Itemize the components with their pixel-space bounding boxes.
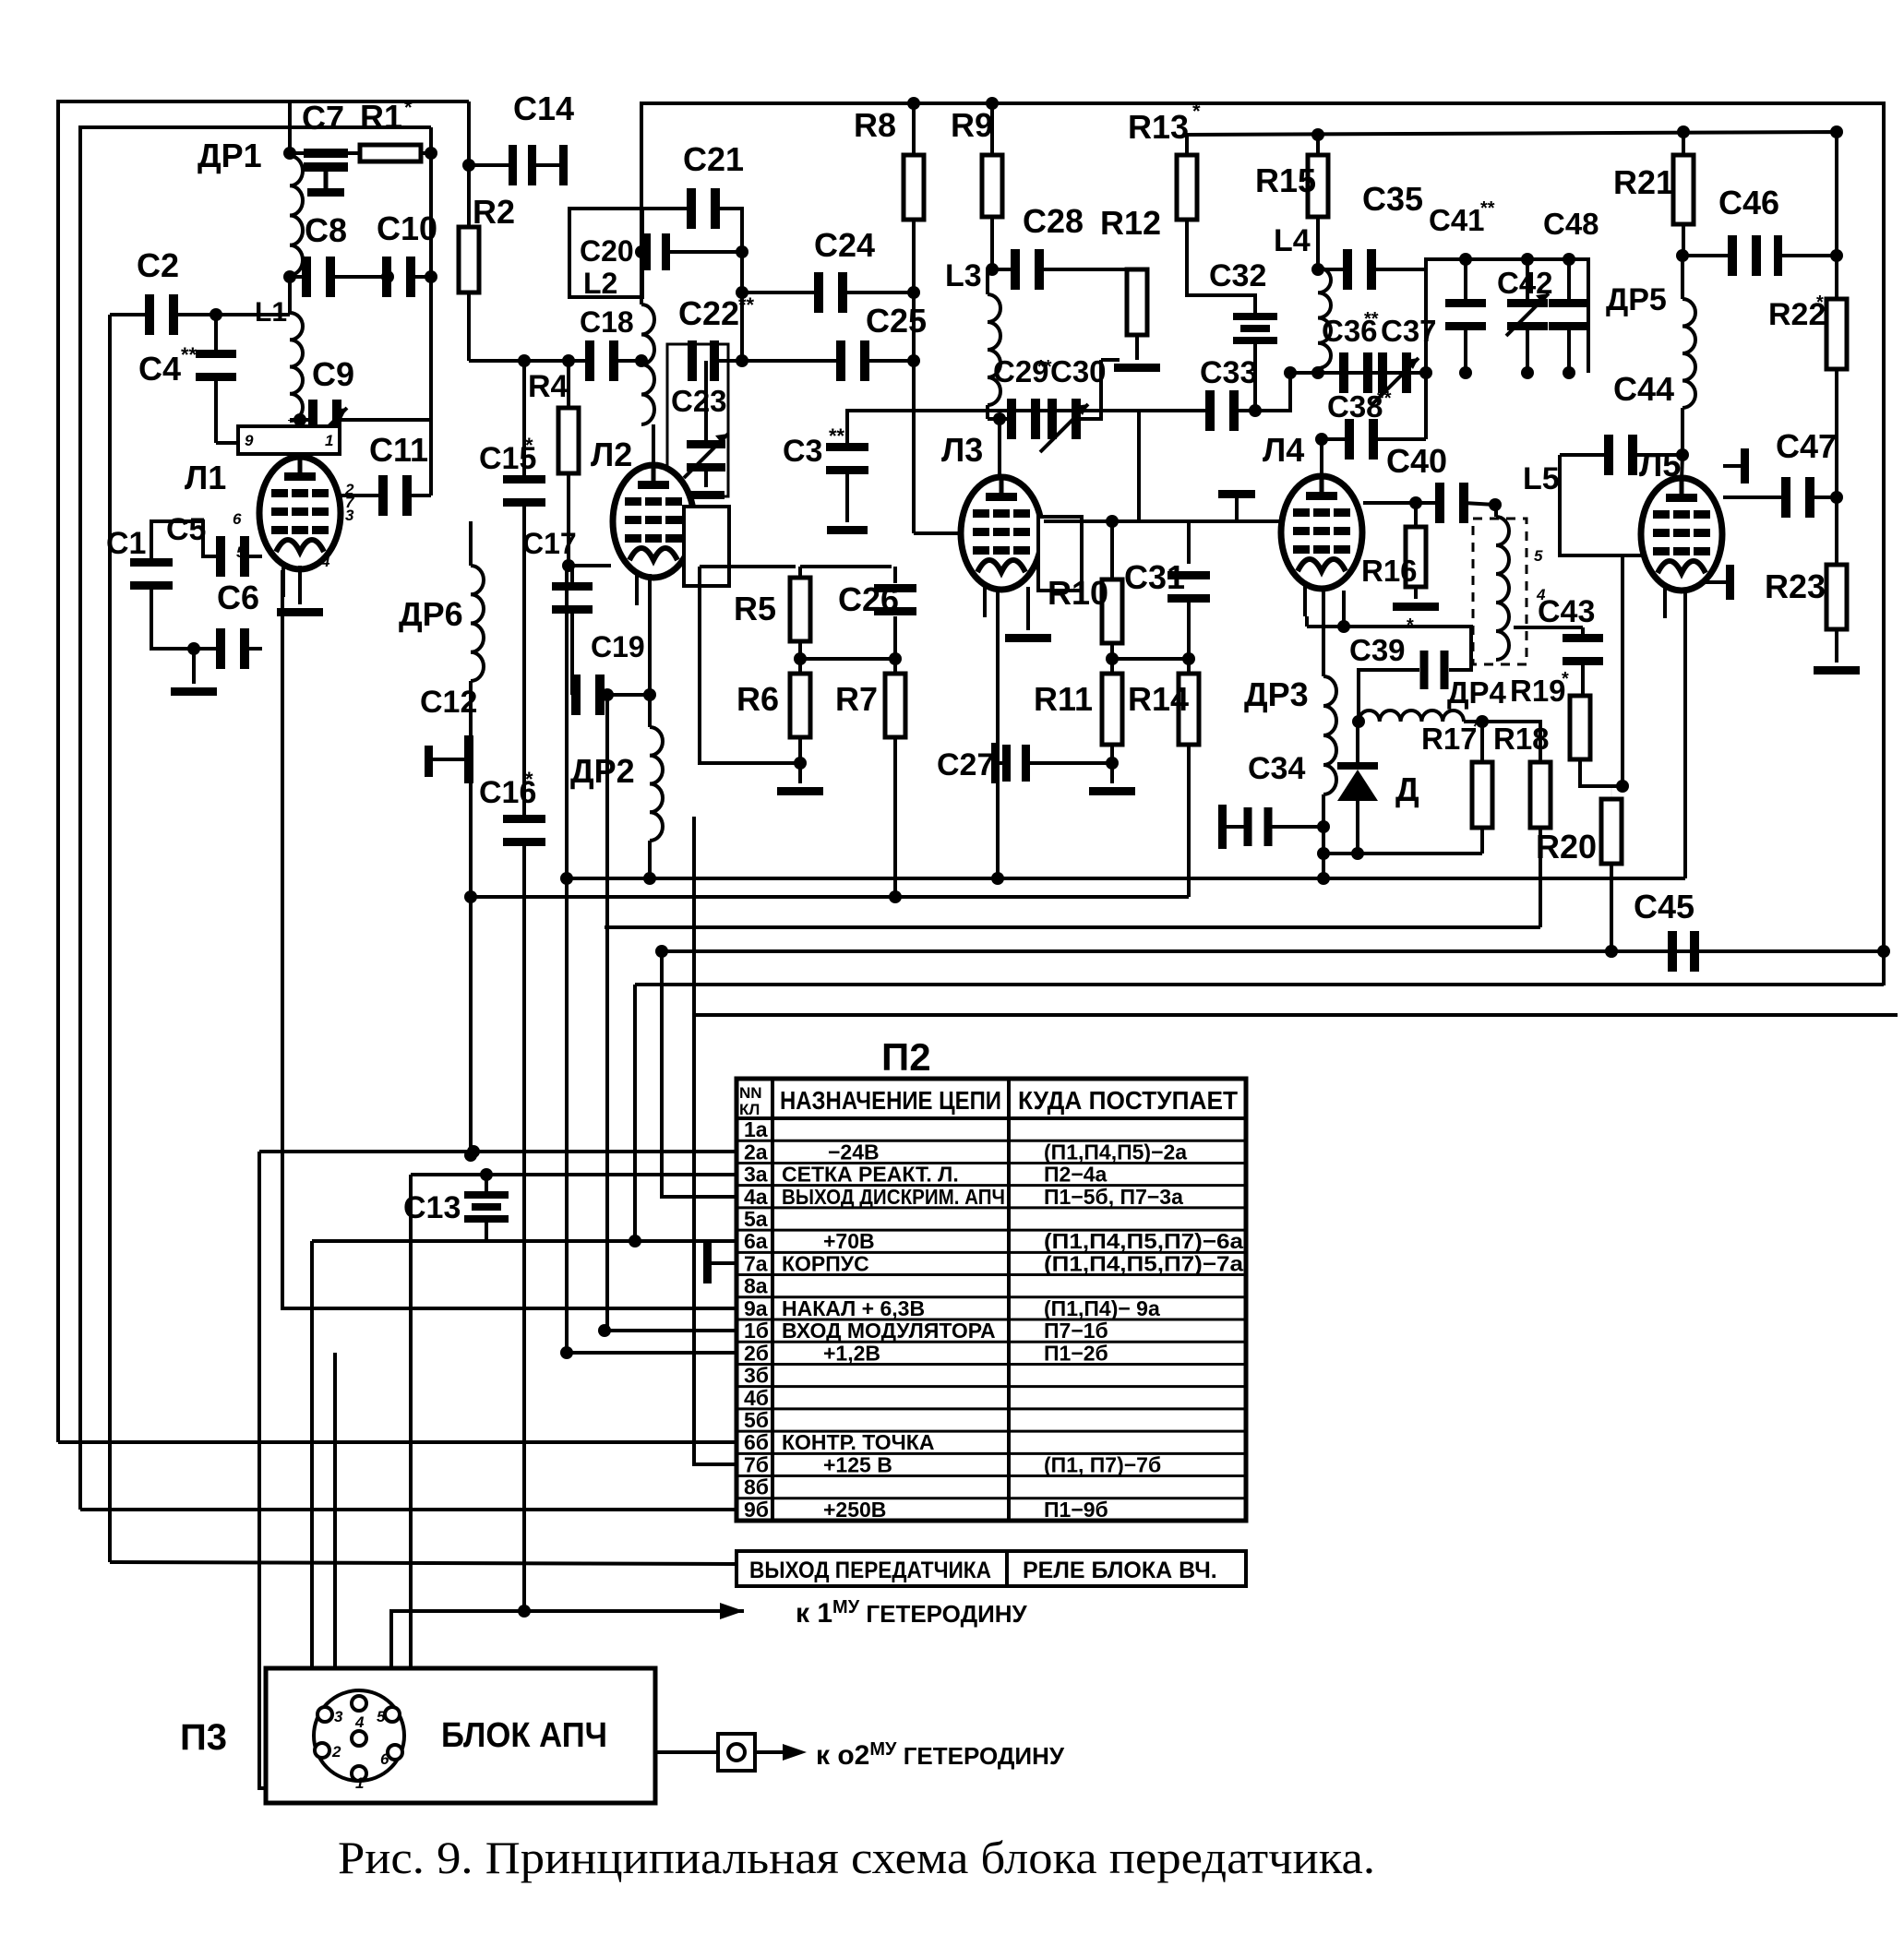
capacitor C35 [1311, 263, 1324, 276]
svg-text:C37: C37 [1381, 314, 1437, 348]
capacitor C23 variable [704, 361, 708, 448]
svg-text:9: 9 [245, 432, 254, 449]
wire v306 heater to row 9a [282, 570, 736, 1308]
cathode marker L5 [1706, 580, 1728, 584]
svg-text:C46: C46 [1718, 184, 1779, 221]
svg-text:СЕТКА РЕАКТ. Л.: СЕТКА РЕАКТ. Л. [782, 1163, 959, 1187]
tube L5 cathode down [1683, 588, 1687, 878]
capacitor C27 [991, 743, 1000, 783]
wire +B bus y146 [1187, 132, 1837, 299]
tube L3 [961, 477, 1042, 590]
tube L2 [613, 465, 694, 578]
svg-text:C35: C35 [1362, 180, 1423, 218]
svg-text:*: * [404, 96, 413, 119]
svg-text:C12: C12 [420, 685, 477, 720]
svg-text:+1,2В: +1,2В [823, 1341, 880, 1365]
resistor R1 [360, 145, 421, 161]
svg-text:R21: R21 [1613, 163, 1674, 201]
resistor R11 [1111, 673, 1113, 675]
svg-text:C30: C30 [1050, 354, 1107, 388]
svg-text:3а: 3а [744, 1163, 768, 1187]
svg-text:R13: R13 [1128, 108, 1189, 146]
capacitor C45 [1668, 931, 1677, 972]
svg-text:**: ** [181, 343, 198, 366]
wire row 6b feed from left frame [58, 1440, 736, 1444]
capacitor C20 [635, 245, 648, 258]
svg-text:**: ** [829, 424, 845, 448]
inductor L4 [1318, 268, 1331, 368]
resistor R21 [1677, 125, 1690, 138]
svg-text:R9: R9 [951, 106, 993, 144]
inductor L1 [290, 313, 303, 421]
capacitor C40 [1363, 501, 1440, 505]
svg-text:+125 В: +125 В [823, 1452, 892, 1476]
capacitor C46 [1676, 249, 1689, 262]
capacitor C22 [688, 340, 697, 381]
tube L1 cathode ground [298, 566, 302, 604]
resistor R8 [912, 103, 916, 155]
svg-text:C7: C7 [302, 99, 344, 137]
resistor R18 [1482, 722, 1540, 762]
tube L1 pins box [238, 426, 340, 454]
capacitor C39 [1305, 616, 1309, 627]
resistor R9 [990, 103, 994, 155]
svg-text:L2: L2 [583, 267, 617, 300]
svg-text:R6: R6 [736, 680, 779, 718]
svg-text:C38: C38 [1327, 389, 1383, 424]
resistor R13 [1185, 135, 1189, 155]
svg-text:C45: C45 [1634, 888, 1694, 925]
svg-text:R1: R1 [360, 98, 402, 136]
capacitor C10 [382, 257, 391, 297]
svg-text:*: * [1192, 100, 1201, 123]
wire v510 DR6-C12 line to row 2a [469, 521, 473, 566]
ground under R16 [1393, 603, 1439, 611]
wire row 9b feed [80, 1508, 736, 1511]
svg-text:(П1,П4,П5)−2а: (П1,П4,П5)−2а [1044, 1140, 1187, 1164]
wire row 3a feed [411, 1173, 736, 1176]
capacitor C5 [151, 521, 222, 564]
svg-text:R7: R7 [835, 680, 878, 718]
svg-text:4б: 4б [744, 1386, 769, 1410]
svg-text:L1: L1 [255, 297, 287, 328]
wire to 1st heterodyne [391, 1611, 744, 1718]
svg-text:П7−1б: П7−1б [1044, 1319, 1108, 1343]
wire C2 feed vertical [108, 315, 112, 1562]
svg-text:C8: C8 [305, 211, 347, 249]
capacitor C13 feedthrough [480, 1168, 493, 1181]
wire R5-R6 junction [798, 641, 802, 674]
svg-text:П1−2б: П1−2б [1044, 1341, 1108, 1365]
capacitor C24 [742, 291, 818, 294]
wire L4 tank bottom [1290, 371, 1426, 375]
svg-text:C17: C17 [522, 527, 577, 560]
svg-text:R2: R2 [473, 193, 515, 231]
svg-text:(П1,П4,П5,П7)−6а: (П1,П4,П5,П7)−6а [1044, 1229, 1243, 1253]
capacitor C9 variable [288, 420, 292, 421]
svg-text:R23: R23 [1765, 567, 1826, 605]
wire left frame outer [58, 101, 469, 1442]
svg-text:ДР3: ДР3 [1244, 675, 1309, 713]
svg-text:Л4: Л4 [1263, 431, 1304, 469]
svg-text:C1: C1 [106, 526, 146, 561]
svg-text:R18: R18 [1493, 722, 1550, 756]
svg-text:*: * [525, 768, 533, 791]
wire APCh output [655, 1750, 718, 1754]
svg-text:2: 2 [331, 1743, 341, 1761]
resistor R23 [1835, 497, 1838, 565]
svg-text:C40: C40 [1386, 442, 1447, 480]
capacitor C11 [339, 494, 382, 497]
capacitor C26 [800, 565, 892, 568]
capacitor C8 [288, 275, 292, 313]
svg-text:П2: П2 [881, 1035, 931, 1079]
svg-text:R15: R15 [1255, 161, 1316, 199]
capacitor C7 feedthrough [290, 151, 360, 155]
box around C22 C23 [667, 344, 728, 496]
svg-text:КОРПУС: КОРПУС [782, 1251, 869, 1275]
capacitor C28 [986, 263, 999, 276]
svg-text:П3: П3 [180, 1717, 227, 1758]
svg-text:9а: 9а [744, 1296, 768, 1320]
ground at row 7a [703, 1243, 712, 1283]
connector table P2 [736, 1079, 1246, 1521]
capacitor C33 [1139, 409, 1209, 412]
svg-text:4: 4 [320, 553, 330, 570]
block APCh box [266, 1668, 655, 1803]
resistor R4 [567, 361, 570, 408]
capacitor C36 [1339, 352, 1348, 393]
capacitor C18 [585, 340, 594, 381]
svg-text:C11: C11 [369, 431, 428, 469]
svg-text:КЛ: КЛ [739, 1101, 760, 1118]
ground under R11 [1089, 787, 1135, 795]
wire L5 grid lead [1616, 780, 1629, 793]
svg-text:к о2МУ ГЕТЕРОДИНУ: к о2МУ ГЕТЕРОДИНУ [816, 1739, 1065, 1771]
tube L2 grid coupling C17 [562, 559, 575, 572]
shield box right of L3 [1038, 517, 1082, 591]
svg-text:3б: 3б [744, 1364, 769, 1388]
svg-text:**: ** [1364, 309, 1379, 329]
inductor L5 [1496, 517, 1509, 660]
svg-text:R12: R12 [1100, 204, 1161, 242]
resistor R7 [893, 659, 897, 674]
svg-text:C42: C42 [1497, 266, 1553, 300]
resistor R6 [799, 673, 801, 675]
svg-text:Л3: Л3 [941, 431, 983, 469]
capacitor C31 [1106, 515, 1119, 528]
svg-text:+250В: +250В [823, 1498, 886, 1522]
tube L4 grid lead [1139, 411, 1282, 521]
svg-text:C6: C6 [217, 579, 259, 616]
resistor R19 [1579, 695, 1581, 697]
svg-text:6: 6 [380, 1750, 389, 1768]
svg-text:6: 6 [233, 510, 242, 528]
svg-text:ДР2: ДР2 [570, 752, 635, 790]
ground under R6 [777, 787, 823, 795]
svg-text:КОНТР. ТОЧКА: КОНТР. ТОЧКА [782, 1430, 934, 1454]
svg-text:*: * [1407, 615, 1414, 636]
svg-text:ВХОД МОДУЛЯТОРА: ВХОД МОДУЛЯТОРА [782, 1319, 996, 1343]
svg-text:*: * [1562, 669, 1569, 689]
svg-text:2б: 2б [744, 1341, 769, 1365]
svg-text:5: 5 [377, 1708, 386, 1725]
svg-text:НАКАЛ + 6,3В: НАКАЛ + 6,3В [782, 1296, 925, 1320]
svg-text:C23: C23 [671, 384, 727, 418]
svg-text:БЛОК АПЧ: БЛОК АПЧ [441, 1716, 607, 1755]
choke DR3 [1323, 676, 1336, 794]
svg-text:3: 3 [334, 1708, 343, 1725]
wire v510 lower [469, 781, 473, 1152]
capacitor C21 [641, 207, 689, 210]
svg-text:R17: R17 [1421, 722, 1478, 756]
svg-text:C26: C26 [838, 580, 899, 618]
wire left frame inner [80, 127, 431, 1510]
svg-text:C44: C44 [1613, 370, 1674, 408]
tube L3 grid lead [914, 531, 961, 535]
svg-text:2а: 2а [744, 1140, 768, 1164]
tube L1 [259, 457, 341, 569]
resistor R16 [1409, 496, 1422, 509]
capacitor C14 [469, 163, 509, 167]
resistor R5 network [700, 565, 796, 568]
svg-text:ДР5: ДР5 [1606, 282, 1667, 317]
capacitor C47 [1830, 491, 1843, 504]
wire v445 to connector pin6 [402, 1175, 411, 1752]
ground under C6 [192, 649, 196, 684]
svg-text:C10: C10 [377, 209, 437, 247]
capacitor C30 variable [1048, 399, 1057, 439]
output transmitter box [736, 1551, 1246, 1586]
capacitor C32 feedthrough [1233, 313, 1277, 320]
svg-text:(П1,П4)− 9а: (П1,П4)− 9а [1044, 1296, 1160, 1320]
choke DR4 [1352, 715, 1365, 728]
ground under R23 [1814, 666, 1860, 675]
choke DR1 [288, 101, 292, 153]
capacitor C38 [1315, 433, 1328, 446]
wire bus B y972 [471, 895, 1189, 899]
capacitor C16 [503, 815, 545, 823]
wire v717 to row 4a [662, 951, 736, 1197]
svg-text:4а: 4а [744, 1185, 768, 1209]
svg-text:4: 4 [354, 1713, 365, 1731]
svg-text:C18: C18 [580, 305, 634, 339]
svg-text:C25: C25 [866, 302, 927, 340]
svg-text:L4: L4 [1274, 223, 1311, 258]
svg-text:R14: R14 [1128, 680, 1189, 718]
tube L5 [1641, 478, 1722, 591]
connector P3 circle [314, 1690, 404, 1781]
wire v281 down to connector [259, 1152, 341, 1788]
inductor L5 shield dashed [1473, 519, 1527, 664]
svg-text:C34: C34 [1248, 751, 1305, 786]
svg-text:5: 5 [1534, 547, 1543, 565]
svg-text:8б: 8б [744, 1475, 769, 1499]
choke DR5 [1681, 256, 1684, 299]
capacitor C41 [1464, 259, 1467, 307]
wire right block frame top and right border [641, 103, 1884, 985]
tube L5 plate lead [1682, 455, 1682, 481]
svg-text:C24: C24 [814, 226, 875, 264]
svg-text:C43: C43 [1538, 594, 1595, 629]
junction dots on buses [464, 890, 477, 903]
wire v614 to row 2b [567, 566, 736, 1353]
capacitor C43 [1514, 626, 1583, 629]
svg-text:C33: C33 [1200, 355, 1257, 390]
svg-text:*: * [525, 434, 533, 457]
svg-text:C48: C48 [1543, 207, 1599, 241]
resistor R17 [1480, 722, 1484, 762]
svg-text:(П1, П7)−7б: (П1, П7)−7б [1044, 1452, 1161, 1476]
tube L3 plate lead [998, 419, 1001, 479]
svg-text:L3: L3 [945, 258, 982, 293]
svg-text:C3: C3 [783, 434, 822, 469]
svg-text:C5: C5 [166, 512, 206, 547]
svg-text:Рис. 9. Принципиальная схема б: Рис. 9. Принципиальная схема блока перед… [338, 1832, 1375, 1883]
tube L4 plate lead [1320, 439, 1323, 479]
ground under R12 [1114, 364, 1160, 372]
svg-text:**: ** [1377, 388, 1392, 409]
svg-text:П2−4а: П2−4а [1044, 1163, 1108, 1187]
capacitor bank box C41 C42 C48 [1426, 259, 1588, 373]
resistor R20 [1611, 786, 1612, 799]
capacitor C48 [1567, 259, 1571, 307]
svg-text:ВЫХОД ДИСКРИМ. АПЧ: ВЫХОД ДИСКРИМ. АПЧ [782, 1185, 1005, 1209]
capacitor C6 [187, 642, 200, 655]
choke DR6 [469, 521, 473, 566]
capacitor C2 [145, 294, 154, 335]
svg-text:C21: C21 [683, 140, 744, 178]
wire v568 C15-C16 line [522, 361, 526, 483]
wire output box feed [110, 1562, 736, 1564]
svg-text:C28: C28 [1023, 202, 1084, 240]
svg-text:C9: C9 [312, 355, 354, 393]
svg-text:R10: R10 [1048, 574, 1108, 612]
svg-text:C32: C32 [1209, 258, 1266, 293]
svg-text:R19: R19 [1510, 674, 1566, 708]
wire right side of L1 stage [429, 127, 433, 495]
svg-text:R5: R5 [734, 590, 776, 627]
shield box L2 [569, 209, 642, 297]
svg-text:R11: R11 [1034, 680, 1093, 718]
svg-text:ДР4: ДР4 [1447, 675, 1507, 710]
svg-text:C20: C20 [580, 234, 634, 268]
tube L4 [1281, 476, 1362, 589]
svg-text:L5: L5 [1523, 461, 1560, 496]
svg-text:П1−5б, П7−3а: П1−5б, П7−3а [1044, 1185, 1183, 1209]
svg-text:РЕЛЕ БЛОКА ВЧ.: РЕЛЕ БЛОКА ВЧ. [1023, 1558, 1217, 1583]
resistor R12 [1136, 269, 1138, 270]
svg-text:*: * [1473, 717, 1480, 737]
wire v688 to row 6a [633, 985, 637, 1241]
svg-text:+70В: +70В [823, 1229, 875, 1253]
resistor R15 [1311, 128, 1324, 141]
svg-text:1б: 1б [744, 1319, 769, 1343]
svg-text:R20: R20 [1536, 828, 1597, 866]
wire row 6a feed [312, 1239, 736, 1243]
wire bus E frame bottom y1067 [635, 983, 1884, 986]
svg-text:1: 1 [325, 432, 333, 449]
wire v752 to row 7b [694, 817, 736, 1464]
wire v338 row6a to connector pin2 [310, 1241, 314, 1747]
svg-text:7а: 7а [744, 1251, 768, 1275]
capacitor C3 [826, 443, 868, 451]
svg-text:Д: Д [1395, 770, 1419, 808]
capacitor C29 [988, 417, 1012, 421]
svg-text:*: * [1816, 292, 1824, 313]
capacitor C1 [130, 558, 173, 567]
capacitor C25 [742, 359, 840, 363]
svg-text:NN: NN [739, 1084, 762, 1102]
svg-text:8а: 8а [744, 1274, 768, 1298]
svg-text:6б: 6б [744, 1430, 769, 1454]
svg-text:C27: C27 [937, 747, 994, 782]
svg-text:П1−9б: П1−9б [1044, 1498, 1108, 1522]
svg-text:C22: C22 [678, 294, 739, 332]
svg-text:C47: C47 [1776, 427, 1837, 465]
tube L3 cathode ground [1026, 587, 1030, 630]
wire tank right vertical [1424, 269, 1428, 439]
wire grid bus y391 [469, 359, 590, 363]
svg-text:к 1МУ ГЕТЕРОДИНУ: к 1МУ ГЕТЕРОДИНУ [796, 1597, 1028, 1629]
capacitor C12 [425, 746, 433, 777]
svg-text:C31: C31 [1124, 558, 1185, 596]
grid marker L4 [1235, 498, 1239, 521]
capacitor C34 [1218, 805, 1227, 849]
resistor R14 [1187, 659, 1191, 674]
wire row 2a feed [259, 1150, 736, 1153]
wire diode cathode bus [1323, 852, 1482, 855]
diode D [1356, 722, 1359, 762]
svg-text:ДР1: ДР1 [198, 137, 262, 174]
capacitor C37 variable [1378, 352, 1387, 393]
grid2 marker L5 [1723, 464, 1744, 468]
svg-text:Л5: Л5 [1639, 446, 1681, 483]
wire bus D y1031 [662, 949, 1884, 953]
svg-text:−24В: −24В [828, 1140, 880, 1164]
capacitor C44 [1560, 455, 1623, 555]
wire v658 to row 1b [601, 688, 614, 701]
capacitor C15 [503, 475, 545, 483]
svg-text:**: ** [1480, 198, 1495, 219]
svg-text:R8: R8 [854, 106, 896, 144]
svg-text:5а: 5а [744, 1207, 768, 1231]
svg-text:1а: 1а [744, 1117, 768, 1141]
wire bus A y952 [567, 877, 1685, 880]
wire v363 row 2b to connector pin1 [335, 1353, 349, 1776]
tube L4 cathode to DR3 [1322, 587, 1325, 676]
svg-text:6а: 6а [744, 1229, 768, 1253]
capacitor C42 variable [1526, 259, 1529, 307]
resistor R22 [1836, 298, 1838, 300]
inductor L3 [986, 269, 989, 294]
svg-text:КУДА ПОСТУПАЕТ: КУДА ПОСТУПАЕТ [1018, 1086, 1238, 1115]
svg-text:C14: C14 [513, 90, 574, 127]
svg-text:R16: R16 [1361, 554, 1418, 588]
svg-text:ВЫХОД ПЕРЕДАТЧИКА: ВЫХОД ПЕРЕДАТЧИКА [749, 1558, 991, 1583]
svg-text:НАЗНАЧЕНИЕ ЦЕПИ: НАЗНАЧЕНИЕ ЦЕПИ [780, 1086, 1001, 1115]
svg-text:5б: 5б [744, 1408, 769, 1432]
wire from shield box to R6 [700, 586, 800, 763]
tube L3 cathode down lead [996, 587, 1000, 878]
svg-text:R4: R4 [528, 369, 569, 404]
svg-text:C4: C4 [138, 350, 181, 388]
tube L2 plate lead [652, 424, 655, 468]
wire bus C y1005 [605, 925, 1540, 929]
svg-text:1: 1 [355, 1774, 364, 1792]
svg-text:ДР6: ДР6 [399, 595, 463, 633]
svg-text:Л1: Л1 [185, 459, 226, 496]
